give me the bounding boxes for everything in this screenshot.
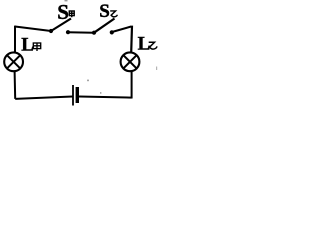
label S1 subscript jia (69, 11, 74, 17)
speck near battery (87, 80, 89, 82)
battery short thick plate (76, 87, 79, 103)
wire bottom-left to battery (15, 97, 72, 99)
switch S2 right terminal (110, 30, 114, 34)
switch S1 blade (51, 19, 71, 32)
svg-text:L: L (21, 35, 34, 56)
svg-text:L: L (138, 34, 151, 55)
switch S2 blade (94, 19, 115, 33)
wire right branch lower (131, 72, 133, 99)
wire left branch upper (14, 26, 16, 53)
battery long thin plate (72, 85, 74, 106)
svg-text:S: S (57, 0, 69, 24)
switch S1 right terminal (66, 30, 70, 34)
speck top edge (65, 0, 68, 1)
label L1 subscript jia (33, 43, 40, 51)
switch S2 left terminal (92, 31, 96, 35)
wire top-left to switch S1 (15, 27, 51, 32)
svg-text:S: S (99, 1, 110, 22)
speck right side (156, 67, 157, 71)
label S2 subscript yi (110, 11, 117, 17)
lamp L1 (4, 52, 23, 71)
lamp L2 (121, 52, 140, 71)
label L2 subscript yi (149, 42, 157, 49)
wire switch S2 to top-right corner (112, 27, 131, 33)
wire left branch lower (14, 72, 17, 99)
switch S1 left terminal (49, 29, 53, 33)
wire right branch upper (130, 26, 133, 53)
wire between switches (68, 31, 94, 34)
speck bottom right area (100, 92, 101, 94)
wire battery to bottom-right (79, 97, 132, 98)
